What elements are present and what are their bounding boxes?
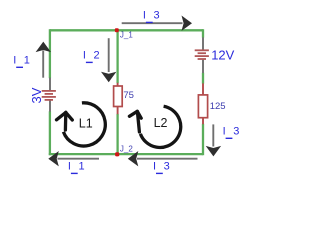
loop arrow L1 head — [57, 112, 73, 130]
svg-text:I: I — [153, 161, 156, 173]
svg-text:I: I — [143, 10, 146, 22]
svg-text:3V: 3V — [29, 87, 44, 103]
svg-text:75: 75 — [123, 90, 134, 101]
current arrow I_3 down (right branch) shaft — [212, 124, 214, 146]
svg-text:I: I — [68, 161, 71, 173]
wire bottom — [49, 153, 203, 155]
battery B2 12V lead bottom — [202, 60, 204, 73]
resistor R1 lead bottom — [117, 106, 119, 114]
loop arrow L1 arc — [63, 103, 105, 146]
resistor R1 lead top — [117, 83, 119, 87]
current arrow I_1 left (bottom left) shaft — [58, 158, 100, 160]
loop arrow L2 head — [129, 111, 141, 132]
svg-text:3: 3 — [154, 10, 160, 22]
resistor R2 body — [198, 95, 207, 118]
wire middle lower — [116, 114, 118, 154]
battery B2 12V lead top — [202, 37, 204, 49]
svg-text:L1: L1 — [79, 117, 93, 131]
battery B1 3V plates — [42, 91, 56, 100]
current arrow I_1 up label — [13, 54, 30, 68]
resistor R2 lead bottom — [202, 117, 204, 124]
battery B1 3V lead top — [49, 78, 51, 91]
wire right upper — [202, 29, 204, 37]
svg-text:I: I — [13, 54, 16, 66]
svg-text:125: 125 — [210, 101, 226, 112]
battery B1 3V lead bottom — [49, 100, 51, 112]
resistor R1 body — [114, 86, 123, 107]
wire right middle — [202, 73, 204, 84]
svg-text:J_1: J_1 — [120, 30, 133, 39]
svg-text:J_2: J_2 — [120, 144, 133, 153]
svg-text:12V: 12V — [211, 47, 234, 62]
current arrow I_3 right head — [182, 16, 193, 31]
current arrow I_3 left head — [128, 151, 139, 166]
svg-text:1: 1 — [79, 161, 85, 173]
junction J_1 dot — [115, 28, 119, 32]
current arrow I_2 down (middle branch) shaft — [108, 38, 110, 72]
wire left lower — [49, 111, 51, 155]
current arrow I_1 up (left branch) shaft — [42, 51, 44, 78]
svg-text:2: 2 — [94, 50, 100, 62]
current arrow I_3 right label — [223, 125, 240, 139]
loop arrow L2 arc — [140, 106, 180, 147]
resistor R2 lead top — [202, 83, 204, 96]
current arrow I_1 left head — [48, 151, 59, 166]
current arrow I_3 bottom label — [153, 161, 170, 175]
current arrow I_3 left (bottom right) shaft — [137, 158, 198, 160]
wire left upper — [49, 29, 51, 78]
svg-text:3: 3 — [164, 161, 170, 173]
svg-text:1: 1 — [24, 54, 30, 66]
wire middle upper — [116, 30, 118, 83]
current arrow I_2 label — [83, 50, 100, 64]
battery B2 12V plates — [195, 50, 209, 59]
svg-text:3: 3 — [233, 125, 239, 137]
svg-text:I: I — [223, 125, 226, 137]
wire top (node A) — [50, 29, 203, 31]
svg-text:I: I — [83, 50, 86, 62]
current arrow I_2 down head — [101, 72, 116, 83]
current arrow I_3 right (top branch) shaft — [122, 22, 183, 24]
current arrow I_3 down head — [206, 146, 221, 157]
current arrow I_1 bottom label — [68, 161, 85, 175]
junction J_2 dot — [115, 152, 119, 156]
current arrow I_3 top label — [143, 10, 160, 24]
wire right lower — [202, 124, 204, 155]
current arrow I_1 up head — [36, 42, 51, 53]
svg-text:L2: L2 — [154, 116, 168, 130]
